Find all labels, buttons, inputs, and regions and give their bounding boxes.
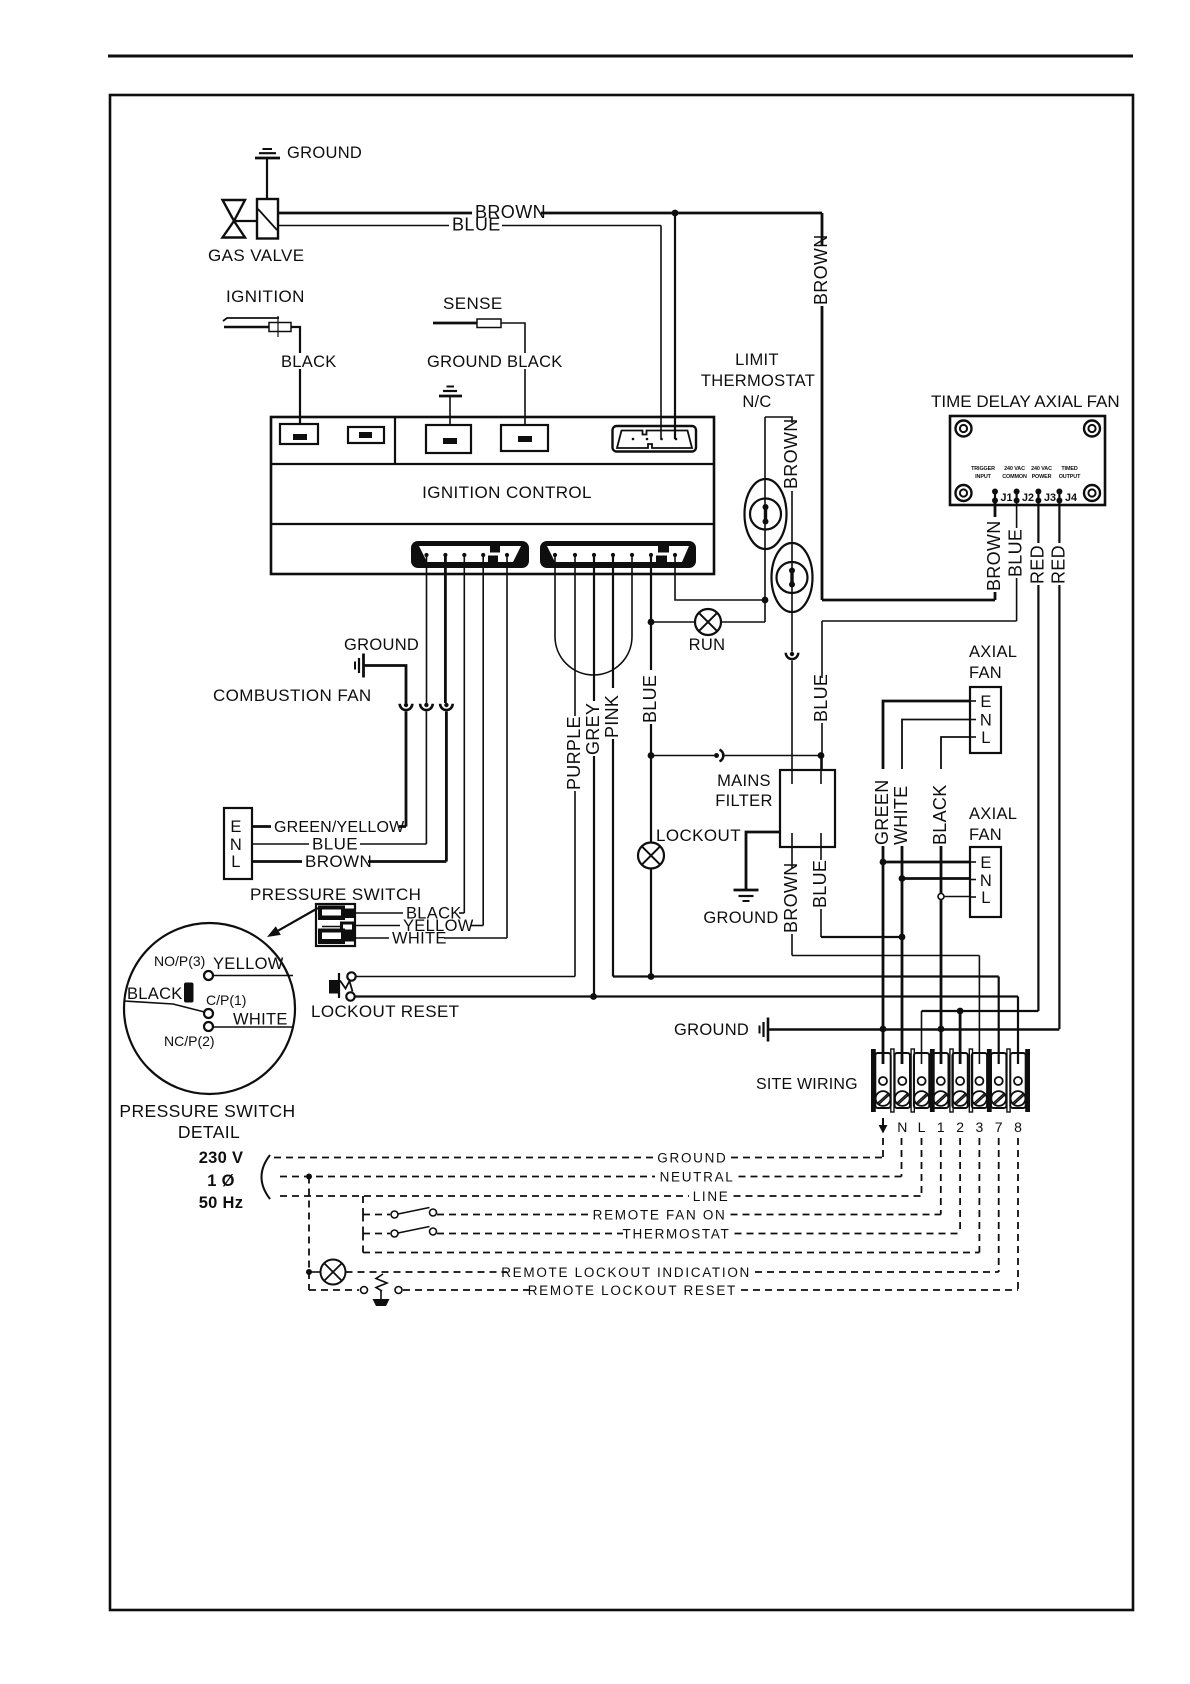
svg-text:2: 2 [956,1119,964,1135]
svg-text:E: E [230,818,241,836]
svg-text:GROUND: GROUND [427,353,502,371]
pressure switch PS1 [316,904,355,946]
svg-text:RED: RED [1048,545,1068,584]
wire GREY [583,556,603,1000]
svg-text:N: N [980,872,992,890]
svg-text:GROUND: GROUND [344,636,419,654]
svg-text:N: N [897,1119,907,1135]
svg-text:BLUE: BLUE [1006,529,1026,577]
gas valve V1 [208,199,305,265]
wire pin2 down [444,556,447,703]
wires sockets to ENL box [406,712,446,862]
svg-text:1: 1 [937,1119,945,1135]
ENL box (combustion fan) [224,808,252,879]
svg-text:BLUE: BLUE [810,860,830,908]
connector P2 (bottom right, black) [540,541,696,568]
connector box 3 (ground) [426,425,471,453]
svg-text:FAN: FAN [969,664,1002,682]
svg-text:BROWN: BROWN [781,419,801,490]
svg-text:IGNITION CONTROL: IGNITION CONTROL [422,483,592,502]
terminal labels [879,1118,1023,1135]
wire WHITE (pressure switch) [355,556,507,948]
pressure switch detail circle [124,923,295,1094]
lamp RUN [689,609,726,654]
svg-text:OUTPUT: OUTPUT [1059,474,1081,480]
wire BLACK (fans) [930,737,970,1064]
dashed wire NEUTRAL [280,1138,902,1185]
svg-text:LIMIT: LIMIT [735,351,779,369]
svg-text:PRESSURE SWITCH: PRESSURE SWITCH [119,1101,295,1121]
wire GREEN [872,701,970,1064]
svg-text:TRIGGER: TRIGGER [971,466,995,472]
wire pin7 to thermostat [675,556,768,603]
dashed wire REMOTE LOCKOUT RESET [403,1138,1018,1298]
svg-text:AXIAL: AXIAL [969,805,1017,823]
svg-text:WHITE: WHITE [891,786,911,846]
border frame [110,95,1133,1610]
svg-text:GREEN: GREEN [872,779,892,845]
svg-text:GROUND: GROUND [657,1151,727,1166]
terminal cells [875,1053,1025,1108]
mains filter U3 [780,770,835,847]
wire BLUE (comb fan) [252,835,426,854]
wire brown drop to connector [674,213,676,439]
dashed wire THERMOSTAT [437,1138,960,1242]
svg-text:L: L [231,853,240,871]
svg-text:240 VAC: 240 VAC [1031,466,1052,472]
svg-text:INPUT: INPUT [975,474,991,480]
wire J3 RED [1027,503,1047,1011]
svg-text:PINK: PINK [602,695,622,738]
svg-text:FILTER: FILTER [715,792,772,810]
terminal J4 [1056,489,1077,505]
svg-text:GREY: GREY [583,703,603,755]
svg-text:NC/P(2): NC/P(2) [164,1033,215,1049]
ignition electrode [223,287,337,424]
svg-text:POWER: POWER [1032,474,1052,480]
lockout reset wires to terminals [355,997,1018,1065]
connector box 4 (sense) [501,425,548,451]
dashed wire REMOTE LOCKOUT INDICATION [346,1138,999,1280]
wire BLUE (lockout) [640,556,660,977]
svg-text:BLACK: BLACK [930,784,950,845]
wire BROWN from gas valve [278,202,831,600]
svg-text:BLUE: BLUE [452,215,501,235]
svg-text:GREEN/YELLOW: GREEN/YELLOW [274,819,405,836]
terminal J3 [1035,489,1056,505]
svg-text:GROUND: GROUND [287,144,362,162]
axial fan 2 box M2 [970,847,1001,917]
svg-text:8: 8 [1014,1119,1022,1135]
svg-text:YELLOW: YELLOW [213,955,284,973]
svg-text:BLACK: BLACK [127,985,183,1003]
svg-text:3: 3 [976,1119,984,1135]
svg-text:E: E [980,693,991,711]
top rule [108,55,1133,58]
svg-text:N: N [230,836,242,854]
wire to filter (blue junction line) [648,750,825,771]
wire BLUE from gas valve [278,215,661,440]
run lamp wire [648,600,765,625]
connector P1 (bottom left, black) [411,541,529,568]
svg-text:L: L [918,1119,926,1135]
svg-text:50 Hz: 50 Hz [199,1194,244,1212]
svg-text:N/C: N/C [742,393,771,411]
wire YELLOW (pressure switch) [355,556,483,935]
svg-text:MAINS: MAINS [717,772,771,790]
dashed wire GROUND [274,1138,883,1166]
lockout reset switch S2 [329,972,356,1000]
filter ground wire [703,832,780,927]
svg-text:NEUTRAL: NEUTRAL [660,1170,735,1185]
svg-text:COMBUSTION FAN: COMBUSTION FAN [213,686,372,705]
wire WHITE [891,720,970,1065]
wire BLUE (filter out) [810,847,905,940]
dashed wire LINE [280,1138,922,1204]
svg-text:230 V: 230 V [199,1149,244,1167]
thermostat switch [363,1215,437,1238]
wire J1 BROWN [822,503,1004,600]
wire PURPLE [356,556,584,977]
svg-text:TIMED: TIMED [1061,466,1077,472]
svg-text:1 Ø: 1 Ø [207,1172,235,1190]
dashed return wire (terminal 3) [363,1138,979,1253]
arrow to detail [267,908,318,937]
svg-text:J1: J1 [1001,492,1013,504]
time delay axial fan box U2 [950,416,1105,505]
svg-text:BLUE: BLUE [312,835,358,854]
svg-text:WHITE: WHITE [233,1011,288,1029]
svg-text:REMOTE FAN ON: REMOTE FAN ON [593,1208,727,1223]
svg-text:BLUE: BLUE [811,674,831,722]
ground (ignition control) [427,353,502,425]
wire pin1 down [426,556,428,703]
svg-text:RUN: RUN [689,636,726,654]
svg-text:BLACK: BLACK [281,353,337,371]
230V source label [199,1149,270,1212]
terminal J2 [1014,489,1034,505]
svg-text:BROWN: BROWN [781,863,801,934]
svg-text:THERMOSTAT: THERMOSTAT [623,1227,731,1242]
svg-text:BLUE: BLUE [640,675,660,723]
plug sockets (combustion fan) [400,703,453,710]
svg-text:REMOTE LOCKOUT RESET: REMOTE LOCKOUT RESET [528,1283,737,1298]
svg-text:RED: RED [1027,545,1047,584]
limit thermostat label [701,351,815,411]
svg-text:GROUND: GROUND [703,909,778,927]
svg-text:THERMOSTAT: THERMOSTAT [701,372,815,390]
svg-text:GROUND: GROUND [674,1021,749,1039]
svg-text:J2: J2 [1022,492,1034,504]
connector box 1 (ignition) [280,424,318,444]
axial fan 2 label [969,805,1017,844]
svg-text:N: N [980,712,992,730]
wire PINK [602,556,999,1064]
svg-text:BLACK: BLACK [507,353,563,371]
terminal block TB1 [871,1049,1030,1112]
wire GREEN/YELLOW [252,819,406,836]
svg-text:J3: J3 [1044,492,1056,504]
svg-text:C/P(1): C/P(1) [206,992,246,1008]
svg-text:BROWN: BROWN [984,521,1004,592]
svg-text:240 VAC: 240 VAC [1004,466,1025,472]
dashed wire REMOTE FAN ON [437,1138,941,1223]
svg-text:NO/P(3): NO/P(3) [154,953,205,969]
axial fan 1 label [969,643,1017,682]
limit thermostat S1 [745,417,813,652]
svg-text:FAN: FAN [969,826,1002,844]
svg-text:SITE WIRING: SITE WIRING [756,1076,858,1093]
svg-text:REMOTE LOCKOUT INDICATION: REMOTE LOCKOUT INDICATION [501,1265,751,1280]
svg-text:7: 7 [995,1119,1003,1135]
svg-text:PRESSURE SWITCH: PRESSURE SWITCH [250,885,421,904]
svg-text:J4: J4 [1065,492,1077,504]
mains filter label [715,772,772,810]
remote fan on switch [363,1196,437,1218]
svg-text:LOCKOUT RESET: LOCKOUT RESET [311,1002,459,1021]
wire J2 BLUE [811,503,1026,771]
wire BROWN (comb fan) [252,852,446,871]
svg-text:IGNITION: IGNITION [226,287,305,306]
lamp LOCKOUT [638,826,741,869]
svg-text:DETAIL: DETAIL [178,1122,240,1142]
ground (site wiring) [674,1018,1059,1042]
svg-text:LOCKOUT: LOCKOUT [656,826,741,845]
svg-text:BROWN: BROWN [811,235,831,306]
plug connector (thermostat to filter) [786,652,799,771]
ground (combustion fan) [344,636,419,703]
connector box 2 [348,427,384,443]
svg-text:TIME DELAY AXIAL FAN: TIME DELAY AXIAL FAN [931,392,1120,411]
svg-text:LINE: LINE [693,1189,730,1204]
J3 link line [922,1008,1039,1064]
wire J4 RED [1048,503,1068,1029]
svg-text:AXIAL: AXIAL [969,643,1017,661]
svg-text:E: E [980,854,991,872]
wire BROWN (filter out) [781,847,979,1064]
svg-text:COMMON: COMMON [1002,474,1027,480]
sense electrode [433,294,563,424]
svg-text:BROWN: BROWN [305,852,372,871]
ignition control box U1 [271,417,714,574]
remote lockout reset switch [309,1272,402,1306]
ground (gas valve) [255,144,362,199]
axial fan 1 box M1 [970,687,1001,753]
svg-text:L: L [981,889,990,907]
terminal J1 [992,489,1013,505]
svg-text:PURPLE: PURPLE [564,716,584,790]
svg-text:SENSE: SENSE [443,294,503,313]
remote lockout lamp [306,1177,346,1285]
U loop wire (pins 1-5 of P2) [555,556,632,675]
wire BLACK (pressure switch) [355,556,464,923]
pressure switch detail caption [119,1101,295,1142]
svg-text:WHITE: WHITE [392,930,447,948]
svg-text:L: L [981,729,990,747]
connector J5 (top right of ignition control) [613,426,697,452]
svg-text:GAS VALVE: GAS VALVE [208,246,305,265]
